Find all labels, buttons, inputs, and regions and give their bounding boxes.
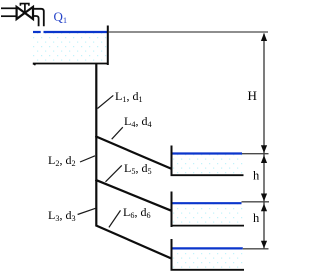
svg-text:H: H [248,88,257,103]
arrow up below reservoir 2 level [261,204,267,212]
pipe L5 [96,180,173,211]
pipe L4 [96,136,173,169]
reservoir 3 wall [171,239,173,271]
supply valve [1,4,44,27]
pipe L6 [96,225,173,259]
svg-text:L3, d3: L3, d3 [48,208,76,223]
valve stem [24,4,26,13]
dimension line H and h [263,34,265,249]
reservoir 3 water line [173,247,243,249]
reservoir 2 fill [173,205,244,226]
inlet pipe upper line [1,7,17,9]
reservoir 2 water line [173,202,242,204]
leader L3 [78,208,96,214]
pipe L1 [95,64,97,138]
arrow up below reservoir 1 level [261,155,267,163]
svg-text:h: h [253,169,260,183]
valve handle [20,4,29,6]
svg-text:L1, d1: L1, d1 [115,89,143,104]
svg-text:L6, d6: L6, d6 [123,205,151,220]
arrow up at H top [261,33,267,41]
leader L6 [109,210,121,227]
tank water line [33,31,108,33]
reservoir 1 bottom [171,174,244,176]
valve body right triangle [25,7,33,19]
reservoir 2 bottom [171,225,245,227]
reservoir 1 wall [171,146,173,177]
outlet spout outer edge [33,9,44,26]
inlet pipe lower line [1,15,16,17]
tank bottom left tick [33,64,35,65]
arrow down at reservoir 2 level [261,194,267,202]
reservoir 1 water line [173,152,243,154]
reservoir 2 level extension line [242,201,270,203]
tank right wall [107,26,109,66]
svg-text:Q1: Q1 [54,9,68,25]
valve body left triangle [17,7,25,19]
arrow down at reservoir 1 level [261,145,267,153]
pipe L3 [95,180,97,226]
svg-text:L5, d5: L5, d5 [124,161,152,176]
tank bottom [33,63,108,65]
reservoir 2 wall [171,192,173,228]
pipe L2 [95,136,97,181]
svg-text:h: h [253,211,260,225]
leader L2 [80,156,95,162]
water level extension line H top [109,31,268,33]
reservoir 1 level extension line [242,153,269,155]
svg-text:L2, d2: L2, d2 [48,153,76,168]
tank fill [33,33,108,63]
arrow down at reservoir 3 level [261,241,267,249]
svg-text:L4, d4: L4, d4 [124,114,152,129]
leader L4 [112,127,123,139]
reservoir 3 level extension line [243,248,269,250]
leader L1 [98,95,114,108]
reservoir 3 bottom [171,269,245,271]
reservoir 1 fill [173,155,244,175]
outlet spout inner edge [33,16,39,26]
reservoir 3 fill [173,250,243,270]
leader L5 [106,165,122,181]
